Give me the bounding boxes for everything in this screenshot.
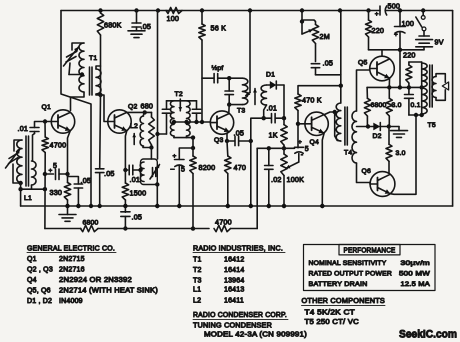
svg-text:100: 100 (402, 19, 415, 28)
svg-text:IN4009: IN4009 (59, 298, 83, 305)
resistor 680 (145, 111, 152, 113)
wire Q6 emitter to T5 (390, 115, 416, 194)
svg-text:T4 5K/2K CT: T4 5K/2K CT (305, 310, 356, 317)
wire T2 bottom (173, 136, 175, 138)
coil L1 core (25, 136, 27, 186)
wire Q1 base node (45, 121, 51, 123)
svg-text:.02: .02 (271, 175, 282, 184)
resistor 4700 at Q1 base (44, 122, 46, 138)
svg-text:L2: L2 (130, 123, 138, 130)
transistor Q5 (370, 56, 395, 81)
wire T1 secondary to Q2 base (101, 95, 108, 122)
trimmer capacitor in box (152, 168, 154, 177)
node feedback (227, 76, 231, 80)
node bus dots (65, 204, 69, 208)
transistor Q4 (305, 112, 328, 135)
svg-text:T2: T2 (175, 91, 183, 98)
capacitor T2 right (196, 101, 198, 110)
svg-text:Q2 , Q3: Q2 , Q3 (27, 267, 53, 274)
svg-text:T1: T1 (89, 55, 97, 62)
svg-text:2N2924 OR 2N3392: 2N2924 OR 2N3392 (59, 277, 132, 284)
capacitor .01 detector (264, 117, 272, 119)
svg-text:0.1: 0.1 (411, 102, 421, 109)
wire Q2 emitter (125, 131, 126, 170)
transistor Q3 (210, 111, 233, 134)
svg-text:4700: 4700 (50, 141, 67, 150)
node L1 bottom (18, 181, 22, 185)
transformer T1 primary (79, 43, 84, 92)
transformer T1 secondary (96, 69, 101, 94)
wire down to lower bus (256, 148, 258, 228)
wire Q1 emitter (68, 131, 71, 183)
wire L1 to emitter line (21, 188, 45, 190)
speaker (432, 77, 436, 98)
node rail 100cap (398, 8, 402, 12)
svg-text:.01: .01 (267, 104, 278, 113)
capacitor .01 to L2 box (125, 169, 127, 171)
svg-text:GENERAL ELECTRIC CO.: GENERAL ELECTRIC CO. (27, 246, 115, 253)
ground symbol top (128, 30, 145, 32)
svg-text:16414: 16414 (224, 267, 244, 274)
transformer T3 winding (229, 77, 242, 79)
resistor 220 collector (366, 8, 370, 12)
svg-text:½pf: ½pf (212, 64, 224, 72)
wire AVC to left (251, 118, 264, 206)
svg-text:.01: .01 (18, 124, 29, 133)
svg-text:Q1: Q1 (42, 104, 51, 111)
capacitor .05 Q3 emitter to AVC line (226, 133, 228, 141)
svg-text:RADIO INDUSTRIES, INC.: RADIO INDUSTRIES, INC. (193, 246, 283, 253)
node Q2 collector (143, 110, 147, 114)
capacitor 100 electrolytic (399, 11, 401, 27)
wire output row (367, 86, 422, 88)
resistor 1K (283, 118, 285, 124)
node Q4 base (296, 122, 300, 126)
resistor 8200 (190, 156, 196, 174)
svg-text:6800: 6800 (83, 220, 99, 227)
diode D1 (267, 84, 270, 86)
capacitor T2 left (166, 101, 168, 110)
svg-text:330: 330 (50, 188, 63, 197)
svg-text:MODEL 42-3A (CN 909991): MODEL 42-3A (CN 909991) (204, 332, 307, 339)
svg-text:1500: 1500 (130, 189, 147, 198)
svg-text:Q6: Q6 (362, 168, 371, 175)
node box left (138, 168, 142, 172)
svg-text:470: 470 (234, 163, 247, 172)
battery 9V (419, 35, 429, 37)
wire Q2 collector (127, 111, 145, 113)
svg-text:56 K: 56 K (211, 24, 227, 33)
capacitor .05 volume coupling (315, 44, 317, 62)
wire to driver base line (316, 74, 341, 76)
svg-text:TUNING CONDENSER: TUNING CONDENSER (193, 323, 272, 330)
wire rail drop to L2 trimmer (157, 11, 159, 160)
potentiometer 100K (281, 154, 287, 176)
resistor 4700 horizontal (214, 225, 231, 231)
resistor 680K (97, 13, 103, 35)
node +5 right (65, 172, 69, 176)
diode D2 (368, 126, 373, 128)
svg-text:220: 220 (403, 51, 416, 60)
svg-text:3.0: 3.0 (396, 150, 406, 157)
wire T5 bottom row (409, 114, 422, 116)
svg-text:Q2: Q2 (128, 104, 137, 111)
svg-text:NOMINAL SENSITIVITY: NOMINAL SENSITIVITY (309, 260, 387, 267)
svg-text:Q5: Q5 (358, 60, 367, 67)
wire Q5 base (357, 70, 370, 111)
svg-text:220: 220 (372, 26, 385, 35)
svg-text:13964: 13964 (224, 278, 244, 285)
wire Q4 collector (324, 112, 334, 115)
node Q3 collector (227, 102, 231, 106)
svg-text:+: + (173, 153, 177, 160)
svg-text:Q4: Q4 (310, 139, 319, 146)
wire wiper (298, 154, 300, 162)
node D2 right (387, 124, 391, 128)
wire T2 left cap bottom (158, 133, 167, 135)
ground symbol output (389, 126, 399, 128)
node T1 tap (69, 74, 82, 76)
svg-text:RADIO CONDENSER CORP.: RADIO CONDENSER CORP. (193, 312, 287, 319)
transistor Q1 (51, 110, 74, 133)
svg-text:T3: T3 (193, 278, 202, 285)
node rail 56K (200, 8, 204, 12)
coil L1 primary (17, 140, 22, 183)
svg-text:12.5 MA: 12.5 MA (401, 281, 431, 288)
capacitor .05 between buses (124, 206, 126, 212)
node D2 left (366, 124, 370, 128)
svg-text:Q4: Q4 (27, 277, 37, 284)
node rail T4 (338, 8, 342, 12)
svg-text:T5 250 CT/ VC: T5 250 CT/ VC (305, 319, 360, 326)
svg-text:SeekIC.com: SeekIC.com (399, 329, 457, 341)
svg-text:680K: 680K (104, 21, 122, 30)
transformer T1 core (89, 67, 91, 95)
svg-text:L2: L2 (193, 298, 201, 305)
svg-text:6800: 6800 (371, 102, 387, 109)
wire T1 primary to Q1 collector (71, 92, 85, 111)
svg-text:T4: T4 (344, 150, 352, 157)
svg-text:3.0: 3.0 (392, 102, 402, 109)
tuning condenser box (oscillator) (141, 159, 158, 185)
svg-text:5: 5 (305, 146, 309, 153)
svg-text:2N2715: 2N2715 (59, 256, 85, 263)
svg-text:+: + (375, 11, 379, 18)
transformer T2 right winding (187, 101, 191, 136)
resistor 56K (201, 11, 203, 25)
capacitor 5 electrolytic to Q4 base (295, 146, 304, 148)
node bus-91 (89, 204, 93, 208)
coil in box (140, 162, 144, 182)
node AVC (282, 116, 286, 120)
wire bias line down (44, 153, 46, 229)
wire rail drop with slug arrow (248, 8, 252, 12)
variable capacitor across L1 (14, 140, 22, 151)
transformer T5 primary (421, 62, 423, 115)
node +5 left (43, 172, 47, 176)
resistor 470 Q3 emitter (226, 141, 229, 156)
svg-text:500 MW: 500 MW (399, 271, 431, 278)
svg-text:.05: .05 (234, 129, 245, 138)
capacitor 5 electrolytic under T2 (179, 148, 193, 160)
wire top supply rail (61, 10, 380, 12)
capacitor 0.1 (408, 87, 410, 94)
wire Q6 base (357, 163, 371, 183)
resistor 6800 (366, 87, 368, 98)
resistor 330 (64, 183, 70, 201)
resistor 1500 (124, 170, 126, 183)
svg-text:100: 100 (167, 14, 180, 23)
wire detector bottom (264, 105, 267, 118)
switch (422, 11, 424, 16)
wire supply row (369, 49, 425, 51)
svg-text:.05: .05 (104, 169, 115, 178)
transformer T4 primary (336, 103, 341, 141)
capacitor .05 Q1 emitter bypass (68, 177, 79, 185)
wire 56K down to Q3 base (201, 40, 203, 122)
transformer T2 left winding (170, 101, 174, 136)
svg-text:.05: .05 (81, 176, 92, 185)
svg-text:RATED OUTPUT POWER: RATED OUTPUT POWER (309, 271, 393, 278)
svg-text:Q3: Q3 (214, 137, 223, 144)
transistor Q2 (108, 110, 131, 133)
svg-text:+: + (49, 168, 53, 175)
svg-text:.01: .01 (130, 175, 141, 184)
svg-text:16412: 16412 (224, 257, 244, 264)
node box bottom (155, 182, 159, 186)
resistor 3.0 first (388, 87, 390, 98)
variable capacitor across T1 (72, 43, 84, 50)
svg-text:100K: 100K (287, 175, 305, 184)
capacitor .02 (268, 148, 270, 165)
resistor 6800 horizontal (81, 225, 99, 231)
svg-text:2N2714 (WITH HEAT SINK): 2N2714 (WITH HEAT SINK) (59, 288, 158, 295)
coil L1 secondary (32, 161, 37, 185)
node 330 bottom / ground (65, 204, 69, 208)
capacitor 1/2pf (202, 77, 214, 79)
transistor Q6 (388, 161, 390, 173)
performance table box (304, 245, 436, 291)
wire L2 bottom (143, 146, 151, 148)
svg-text:T1: T1 (193, 257, 202, 264)
svg-text:1K: 1K (269, 131, 278, 140)
svg-text:T5: T5 (428, 122, 436, 129)
wire Q5 emitter (388, 78, 390, 87)
svg-text:16411: 16411 (224, 298, 244, 305)
wire bottom ground bus (21, 205, 453, 207)
node rail switch (421, 8, 425, 12)
transformer T4 core (344, 107, 346, 145)
wire rail down to T4 (340, 11, 342, 104)
wire left drop from rail (61, 11, 91, 207)
svg-text:OTHER COMPONENTS: OTHER COMPONENTS (302, 298, 386, 305)
svg-text:.05: .05 (141, 22, 152, 31)
wire lower supply bus (45, 228, 81, 230)
transformer T4 secondary (352, 111, 357, 163)
wire D1 down (283, 85, 285, 118)
svg-text:+: + (394, 32, 398, 39)
wire Q4 emitter (322, 133, 324, 206)
wire bias node (192, 138, 194, 148)
coil detector winding (261, 85, 266, 105)
arrow T3 coupling (254, 89, 256, 105)
wire supply to output node (399, 50, 401, 88)
capacitor Q3 collector feedback (228, 78, 230, 91)
svg-text:30µv/m: 30µv/m (401, 260, 431, 267)
capacitor 5 electrolytic at Q1 emitter (45, 173, 54, 175)
capacitor .01 at Q1 base (35, 122, 46, 128)
node driver junction (339, 84, 343, 88)
wire T4 tap to D2 (357, 126, 369, 128)
resistor 3.0 second (388, 127, 390, 145)
svg-text:470 K: 470 K (302, 96, 322, 105)
svg-text:BATTERY DRAIN: BATTERY DRAIN (309, 281, 368, 288)
potentiometer 2M (301, 11, 303, 35)
svg-text:.05: .05 (323, 59, 334, 68)
svg-text:4700: 4700 (215, 218, 232, 227)
svg-text:5: 5 (181, 167, 185, 174)
node 1K bottom (282, 146, 286, 150)
svg-text:8200: 8200 (199, 163, 216, 172)
wire right border (452, 11, 454, 207)
svg-text:Q5, Q6: Q5, Q6 (27, 288, 51, 295)
arrow L2 alignment (133, 134, 135, 145)
transformer T5 core (429, 65, 431, 107)
svg-text:–: – (171, 166, 175, 173)
svg-text:T2: T2 (193, 267, 202, 274)
svg-text:2M: 2M (320, 32, 330, 41)
svg-text:680: 680 (141, 102, 154, 111)
resistor 220 output (409, 61, 422, 63)
node rail 2M (300, 8, 304, 12)
resistor 100 in rail (156, 8, 160, 12)
ground symbol main bus (67, 206, 69, 215)
svg-text:L1: L1 (193, 287, 201, 294)
svg-text:D1 , D2: D1 , D2 (27, 298, 52, 305)
svg-text:2N2716: 2N2716 (59, 267, 85, 274)
node emitter junction (123, 168, 127, 172)
svg-text:L1: L1 (24, 195, 32, 202)
svg-text:16413: 16413 (224, 287, 244, 294)
capacitor .05 rail bypass (134, 8, 138, 12)
capacitor 500 electrolytic in rail (379, 6, 381, 15)
capacitor .05 T1 return (99, 95, 102, 169)
svg-text:PERFORMANCE: PERFORMANCE (344, 248, 396, 255)
svg-text:D2: D2 (373, 133, 382, 140)
svg-text:Q1: Q1 (27, 256, 37, 263)
arrow T2 slug (179, 99, 181, 111)
wire cap to L1 secondary (33, 134, 35, 162)
svg-text:9V: 9V (435, 38, 444, 47)
svg-text:D1: D1 (266, 72, 275, 79)
coil L2 (143, 112, 145, 116)
wire T2 mid rail to Q3 base (174, 121, 210, 123)
svg-text:T3: T3 (237, 108, 245, 115)
node T1 secondary bottom (98, 93, 102, 97)
svg-text:.05: .05 (132, 213, 143, 222)
svg-text:500: 500 (388, 2, 401, 11)
wire Q5 collector (381, 50, 383, 56)
svg-text:5: 5 (53, 163, 57, 170)
resistor 470K (298, 86, 341, 94)
wire audio node (257, 147, 294, 149)
node .05 from Q3 (249, 139, 253, 143)
